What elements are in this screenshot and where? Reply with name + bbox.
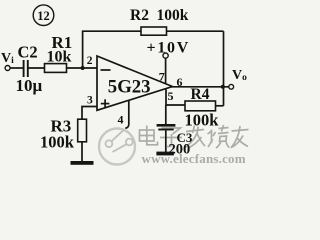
svg-text:12: 12 bbox=[37, 9, 50, 23]
svg-text:5G23: 5G23 bbox=[108, 77, 151, 98]
svg-text:C2: C2 bbox=[18, 43, 38, 62]
svg-text:4: 4 bbox=[118, 113, 124, 127]
svg-text:2: 2 bbox=[87, 55, 93, 67]
svg-text:7: 7 bbox=[159, 70, 165, 84]
svg-text:100k: 100k bbox=[185, 111, 220, 130]
svg-text:R4: R4 bbox=[191, 86, 210, 103]
svg-text:5: 5 bbox=[168, 89, 174, 103]
svg-text:R2: R2 bbox=[130, 7, 149, 24]
svg-text:100k: 100k bbox=[157, 7, 189, 24]
svg-text:3: 3 bbox=[87, 95, 93, 107]
svg-text:100k: 100k bbox=[40, 133, 75, 152]
svg-text:10k: 10k bbox=[47, 49, 72, 66]
svg-text:6: 6 bbox=[177, 75, 183, 89]
svg-text:10μ: 10μ bbox=[16, 76, 43, 95]
svg-text:+10V: +10V bbox=[147, 40, 190, 57]
svg-text:200: 200 bbox=[169, 142, 191, 158]
